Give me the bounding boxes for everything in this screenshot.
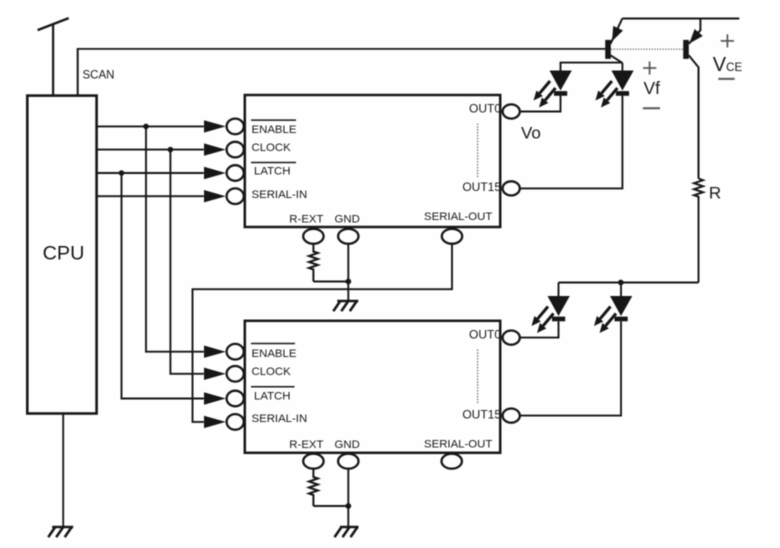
top supply rail xyxy=(622,18,739,20)
U1 OUT15 pin circle xyxy=(503,181,520,195)
wire: row1 anode rail xyxy=(561,63,623,71)
svg-text:SERIAL-IN: SERIAL-IN xyxy=(252,189,308,201)
U2 pin circle ENABLE xyxy=(227,344,244,360)
transistor Q1 emitter lead xyxy=(611,19,623,44)
wire: U1 R-EXT resistor to GND net xyxy=(313,281,348,283)
LED D2 (row 1 right) xyxy=(595,71,633,108)
minus sign (VCE) xyxy=(718,78,734,80)
wire: LED D1 cathode to U1 OUT0 xyxy=(520,96,561,112)
resistor R xyxy=(694,179,703,201)
LED D3 (row 2 left) xyxy=(532,296,570,333)
U1 pin arrow CLOCK xyxy=(204,143,226,155)
ground symbol under U2 xyxy=(335,527,359,537)
junction dot on LATCH wire xyxy=(119,170,125,176)
svg-text:R-EXT: R-EXT xyxy=(289,213,323,225)
svg-text:Vf: Vf xyxy=(644,78,661,98)
wire: LED D2 anode drop xyxy=(621,63,623,71)
plus sign (Vf) xyxy=(643,61,656,74)
junction dot on ENABLE wire xyxy=(143,124,149,130)
U2 pin circle LATCH xyxy=(227,391,244,407)
transistor Q1 base bar xyxy=(605,40,611,59)
wire: SCAN vertical from CPU top xyxy=(77,49,79,96)
LED D1 (row 1 left) xyxy=(534,71,572,108)
junction dot on CLOCK wire xyxy=(168,147,174,153)
transistor Q1 collector lead xyxy=(611,55,623,62)
U2 dotted range line xyxy=(477,350,479,404)
terminal slant mark (scan line continuation) xyxy=(38,18,69,30)
ground symbol under U1 xyxy=(333,301,358,311)
svg-text:SERIAL-OUT: SERIAL-OUT xyxy=(424,211,492,223)
svg-text:OUT0: OUT0 xyxy=(469,328,501,342)
junction dot U1 GND net xyxy=(345,279,351,285)
U2 pin circle SERIAL-IN xyxy=(227,414,244,430)
U1 pin circle SERIAL-IN xyxy=(227,188,244,204)
wire: U1 GND pin down xyxy=(347,244,349,301)
U1 GND pin circle xyxy=(338,229,358,244)
U2 pin arrow ENABLE xyxy=(204,346,226,358)
svg-text:CLOCK: CLOCK xyxy=(252,142,292,154)
U1 pin arrow LATCH xyxy=(204,167,226,179)
wire: LED D3 anode xyxy=(558,283,560,297)
svg-text:CLOCK: CLOCK xyxy=(252,366,292,378)
wire: ENABLE branch down to box2 xyxy=(146,126,204,351)
IC U2 body (lower LED driver) xyxy=(245,321,500,453)
wire: CPU to SERIAL-IN (box1) xyxy=(97,195,204,197)
svg-text:OUT0: OUT0 xyxy=(469,102,501,116)
wire: U2 R-EXT resistor to GND net xyxy=(313,505,348,507)
IC U1 body (upper LED driver) xyxy=(245,95,500,227)
junction dot on second row rail xyxy=(618,280,624,286)
wire: SCAN horizontal rail to Q1 base xyxy=(77,48,606,50)
svg-text:LATCH: LATCH xyxy=(254,166,291,178)
U2 OUT0 pin circle xyxy=(503,331,520,345)
second row anode rail xyxy=(559,282,699,284)
svg-text:ENABLE: ENABLE xyxy=(252,124,297,136)
minus sign (Vf) xyxy=(643,107,660,109)
wire: CPU to LATCH (box1) xyxy=(97,172,204,174)
wire: CPU ground lead xyxy=(62,414,64,528)
U1 OUT0 pin circle xyxy=(503,104,520,118)
svg-text:R: R xyxy=(709,183,721,202)
U2 GND pin circle xyxy=(338,454,358,469)
wire: CPU to CLOCK (box1) xyxy=(97,149,204,151)
svg-text:OUT15: OUT15 xyxy=(462,407,501,421)
svg-text:SCAN: SCAN xyxy=(83,70,115,82)
wire: R down to second row rail xyxy=(698,201,700,283)
U2 pin arrow SERIAL-IN xyxy=(204,416,226,428)
U1 pin circle LATCH xyxy=(227,165,244,181)
svg-text:SERIAL-OUT: SERIAL-OUT xyxy=(424,438,492,450)
svg-text:CPU: CPU xyxy=(43,243,85,265)
transistor Q2 emitter lead xyxy=(689,19,701,44)
svg-text:GND: GND xyxy=(335,213,360,225)
wire: stub from CPU top to slanted terminal mark xyxy=(52,24,54,96)
junction dot U2 GND net xyxy=(345,503,351,509)
transistor Q2 base bar xyxy=(683,40,689,59)
svg-text:LATCH: LATCH xyxy=(254,391,291,403)
resistor on U2 R-EXT xyxy=(309,469,318,506)
svg-text:R-EXT: R-EXT xyxy=(289,439,323,451)
plus sign (VCE) xyxy=(721,34,734,47)
wire: U2 GND pin down xyxy=(347,469,349,527)
wire: U1 SERIAL-OUT to U2 SERIAL-IN xyxy=(193,244,453,422)
transistor Q1 emitter arrow (PNP) xyxy=(612,26,623,41)
U1 pin arrow ENABLE xyxy=(204,120,226,132)
dotted link Q1 base to Q2 base xyxy=(611,48,683,50)
LED D4 (row 2 right) xyxy=(594,296,632,333)
U2 pin circle CLOCK xyxy=(227,366,244,382)
resistor on U1 R-EXT xyxy=(309,244,318,282)
svg-text:SERIAL-IN: SERIAL-IN xyxy=(252,413,308,425)
transistor Q2 emitter arrow (PNP) xyxy=(689,29,703,44)
CPU block xyxy=(27,96,96,414)
wire: LATCH branch down to box2 xyxy=(122,173,204,399)
U2 pin arrow CLOCK xyxy=(204,368,226,380)
U1 SERIAL-OUT pin circle xyxy=(442,229,462,244)
U2 OUT15 pin circle xyxy=(503,409,520,423)
U1 pin arrow SERIAL-IN xyxy=(204,190,226,202)
svg-text:ENABLE: ENABLE xyxy=(252,348,297,360)
U1 pin circle CLOCK xyxy=(227,142,244,158)
U1 pin circle ENABLE xyxy=(227,119,244,135)
wire: LED D2 cathode to U1 OUT15 xyxy=(520,96,623,189)
U1 R-EXT pin circle xyxy=(303,229,323,244)
svg-text:OUT15: OUT15 xyxy=(462,180,501,194)
svg-text:Vo: Vo xyxy=(521,124,541,143)
U1 dotted range line xyxy=(477,124,479,178)
wire: CPU to ENABLE (box1) xyxy=(97,125,204,127)
U2 R-EXT pin circle xyxy=(303,454,323,469)
ground symbol under CPU xyxy=(48,527,73,537)
wire: LED D4 cathode to U2 OUT15 xyxy=(520,321,621,415)
U2 SERIAL-OUT pin circle xyxy=(442,454,462,469)
wire: LED D4 anode xyxy=(620,283,622,297)
U2 pin arrow LATCH xyxy=(204,392,226,404)
wire: CLOCK branch down to box2 xyxy=(170,150,203,374)
svg-text:VCE: VCE xyxy=(713,54,743,76)
svg-text:GND: GND xyxy=(335,439,360,451)
wire: LED D3 cathode to U2 OUT0 xyxy=(520,321,559,337)
transistor Q2 collector lead xyxy=(689,55,699,178)
